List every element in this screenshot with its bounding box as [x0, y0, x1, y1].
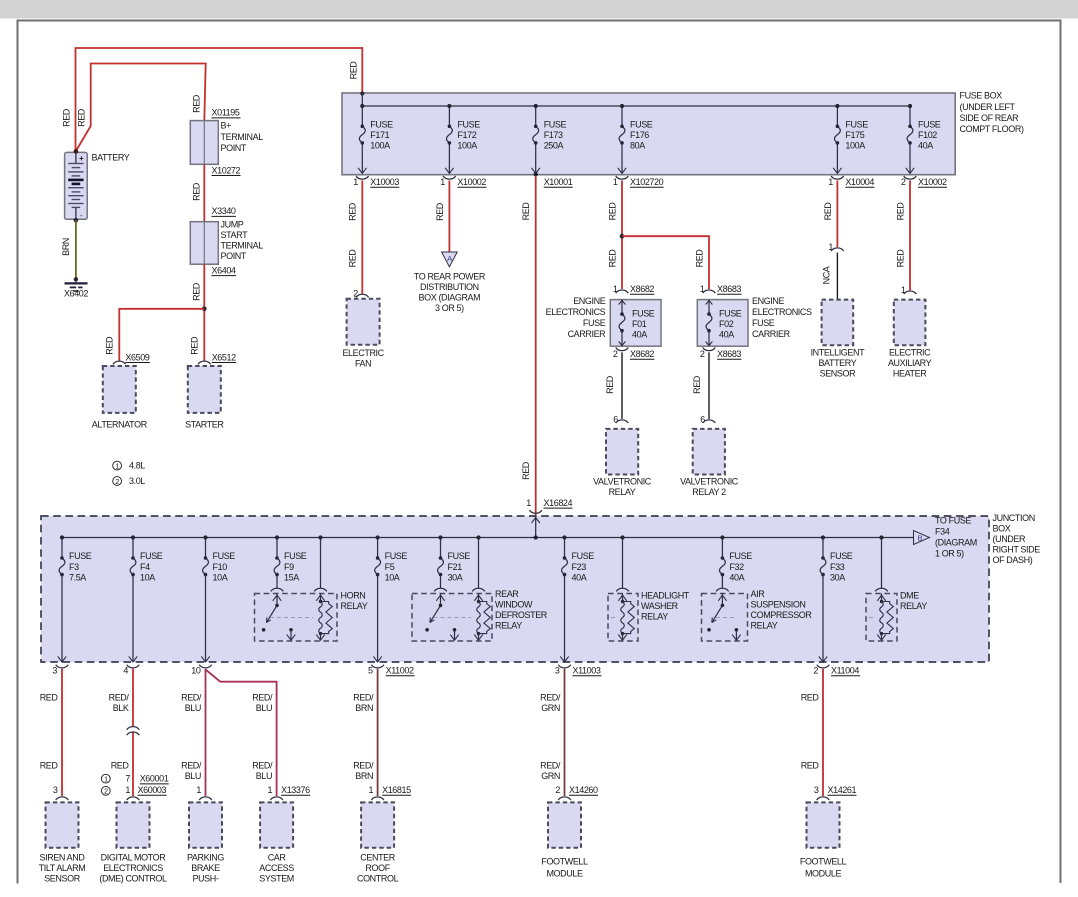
- module connector: [199, 797, 212, 800]
- wire RED/BLU branch to car access system: [206, 670, 277, 797]
- wire bus to relay coil: [476, 535, 480, 539]
- svg-text:FUSE: FUSE: [140, 551, 163, 561]
- air suspension compressor relay box: [702, 594, 748, 642]
- svg-text:RED: RED: [111, 761, 130, 771]
- junction box bottom connector pin 3: [56, 665, 69, 668]
- svg-text:X6509: X6509: [125, 352, 149, 362]
- DME relay coil: [877, 595, 885, 601]
- svg-text:RED: RED: [40, 761, 59, 771]
- valvetronic relay box: [606, 429, 638, 475]
- svg-text:RED: RED: [895, 249, 905, 268]
- module connector: [817, 797, 830, 800]
- svg-text:ELECTRONICS: ELECTRONICS: [546, 307, 606, 317]
- module connector: [127, 797, 140, 800]
- svg-text:2: 2: [901, 177, 906, 187]
- wire RED branch to carrier 2: [622, 236, 709, 289]
- wire RED branch to alternator: [119, 309, 204, 361]
- svg-text:X14261: X14261: [828, 785, 857, 795]
- svg-text:RED/: RED/: [353, 761, 374, 771]
- defroster relay link: [434, 617, 472, 619]
- svg-text:F176: F176: [630, 130, 649, 140]
- svg-text:RED: RED: [692, 375, 702, 394]
- horn relay switch: [273, 595, 281, 601]
- svg-text:RED: RED: [348, 202, 358, 221]
- svg-text:CENTER: CENTER: [360, 853, 396, 863]
- svg-text:1: 1: [526, 498, 531, 508]
- connector X10002 at fuse box bottom: [443, 176, 456, 179]
- svg-text:15A: 15A: [284, 572, 299, 582]
- svg-text:6: 6: [700, 415, 705, 425]
- svg-text:X11003: X11003: [573, 666, 601, 676]
- svg-text:250A: 250A: [544, 140, 564, 150]
- svg-text:2: 2: [115, 477, 119, 486]
- svg-text:X102720: X102720: [630, 177, 664, 187]
- svg-text:5: 5: [368, 666, 373, 676]
- svg-text:X14260: X14260: [569, 785, 598, 795]
- svg-text:AIR: AIR: [751, 589, 766, 599]
- module box: [361, 802, 394, 847]
- svg-text:F21: F21: [448, 562, 463, 572]
- svg-text:ACCESS: ACCESS: [259, 863, 294, 873]
- wire RED F171 to electric fan: [361, 181, 363, 294]
- wire to module: [61, 669, 63, 796]
- ground X6402: [74, 277, 78, 281]
- junction box bus bar: [62, 537, 912, 539]
- connector X10004 at fuse box bottom: [831, 176, 844, 179]
- svg-text:X11004: X11004: [831, 666, 859, 676]
- module connector: [56, 797, 69, 800]
- node - branch to alternator: [202, 307, 207, 312]
- svg-text:BOX: BOX: [993, 524, 1011, 534]
- svg-text:F01: F01: [632, 319, 647, 329]
- svg-text:RED: RED: [40, 693, 59, 703]
- wire BRN battery negative to ground: [75, 220, 77, 279]
- svg-text:X60001: X60001: [140, 774, 169, 784]
- defroster relay coil: [474, 595, 482, 601]
- connector X102720 at fuse box bottom: [616, 176, 629, 179]
- svg-text:FAN: FAN: [355, 358, 371, 368]
- svg-text:RED/: RED/: [252, 693, 273, 703]
- svg-text:ELECTRIC: ELECTRIC: [342, 348, 384, 358]
- wire to valvetronic relay 2 (marked RED): [708, 352, 710, 419]
- svg-text:2: 2: [104, 787, 108, 796]
- svg-text:RED: RED: [349, 61, 359, 80]
- svg-text:+: +: [79, 154, 84, 163]
- valvetronic relay 2 box: [693, 429, 725, 475]
- junction box bottom connector pin 4: [127, 665, 140, 668]
- svg-text:RED/: RED/: [181, 761, 202, 771]
- battery B1: [65, 152, 88, 219]
- wire to module: [564, 669, 566, 796]
- wire RED F176 to engine electronics fuse carriers: [621, 181, 623, 290]
- svg-text:FUSE: FUSE: [572, 551, 595, 561]
- svg-text:10: 10: [191, 666, 201, 676]
- horn relay box: [255, 594, 338, 642]
- svg-text:B: B: [917, 534, 922, 543]
- fuse F33: [821, 535, 825, 539]
- off-page arrow B to fuse F34: [912, 537, 914, 539]
- svg-text:RED: RED: [77, 108, 87, 127]
- intelligent battery sensor box: [822, 300, 854, 346]
- electric auxiliary heater box: [894, 300, 926, 346]
- svg-text:BRAKE: BRAKE: [191, 863, 220, 873]
- wire to module: [822, 669, 824, 796]
- fuse F171: [361, 125, 365, 129]
- wire RED F102 to electric auxiliary heater: [909, 181, 911, 291]
- svg-text:100A: 100A: [845, 140, 865, 150]
- svg-text:1: 1: [267, 785, 272, 795]
- module box: [807, 802, 840, 847]
- svg-text:CONTROL: CONTROL: [357, 873, 399, 883]
- svg-text:X10272: X10272: [212, 165, 241, 175]
- inline connector X60001/X60003: [127, 727, 140, 730]
- wire NCA to intelligent battery sensor: [836, 253, 838, 300]
- svg-text:B+: B+: [221, 121, 232, 131]
- wire fuse output to junction box bottom: [377, 575, 379, 662]
- svg-text:1: 1: [368, 785, 373, 795]
- svg-text:RELAY: RELAY: [641, 612, 668, 622]
- wire to valvetronic relay (marked RED): [621, 352, 623, 419]
- legend engine variant 1 - 4.8L: [113, 461, 122, 470]
- svg-text:(DME) CONTROL: (DME) CONTROL: [99, 873, 167, 883]
- fuse F5: [376, 535, 380, 539]
- air suspension relay switch: [718, 595, 726, 601]
- svg-text:RED: RED: [521, 461, 531, 480]
- svg-text:INTELLIGENT: INTELLIGENT: [811, 348, 866, 358]
- svg-text:RED: RED: [62, 108, 72, 127]
- svg-text:TERMINAL: TERMINAL: [221, 132, 264, 142]
- svg-text:START: START: [221, 230, 249, 240]
- svg-text:RELAY: RELAY: [341, 601, 368, 611]
- svg-text:SYSTEM: SYSTEM: [259, 873, 294, 883]
- svg-text:2: 2: [700, 349, 705, 359]
- svg-text:RED/: RED/: [540, 693, 561, 703]
- bus bar in fuse box: [362, 105, 910, 107]
- svg-text:X8683: X8683: [717, 284, 741, 294]
- wire RED F175 to inline connector: [836, 181, 838, 248]
- wire RED B+ to jump start terminal: [203, 164, 205, 221]
- B+ terminal point box: [190, 121, 218, 165]
- svg-text:HORN: HORN: [341, 591, 366, 601]
- svg-text:ROOF: ROOF: [365, 863, 390, 873]
- svg-text:DME: DME: [900, 591, 919, 601]
- svg-text:FUSE: FUSE: [370, 120, 393, 130]
- svg-text:RED/: RED/: [353, 693, 374, 703]
- svg-text:FUSE: FUSE: [630, 120, 653, 130]
- rear window defroster relay box: [412, 594, 492, 642]
- svg-text:SENSOR: SENSOR: [44, 873, 81, 883]
- svg-text:FUSE: FUSE: [632, 308, 655, 318]
- headlight washer relay coil: [618, 595, 626, 601]
- svg-text:HEATER: HEATER: [893, 369, 927, 379]
- svg-text:4.8L: 4.8L: [129, 461, 145, 471]
- svg-text:(UNDER: (UNDER: [993, 534, 1026, 544]
- svg-text:RED/: RED/: [540, 761, 561, 771]
- svg-text:X8683: X8683: [717, 349, 741, 359]
- svg-text:1: 1: [353, 177, 358, 187]
- svg-text:2: 2: [555, 785, 560, 795]
- svg-text:10A: 10A: [213, 572, 228, 582]
- svg-text:100A: 100A: [370, 140, 390, 150]
- svg-text:RED/: RED/: [252, 761, 273, 771]
- svg-text:X10001: X10001: [544, 177, 573, 187]
- wire bus to relay coil: [318, 535, 322, 539]
- svg-text:AUXILIARY: AUXILIARY: [888, 358, 932, 368]
- svg-text:FUSE BOX: FUSE BOX: [960, 91, 1003, 101]
- svg-text:FUSE: FUSE: [213, 551, 236, 561]
- svg-text:40A: 40A: [719, 330, 734, 340]
- connector X8683 pin 2: [703, 348, 716, 351]
- svg-text:FUSE: FUSE: [544, 120, 567, 130]
- svg-text:POINT: POINT: [221, 143, 247, 153]
- svg-text:F102: F102: [918, 130, 937, 140]
- wire fuse output to junction box bottom: [822, 575, 824, 662]
- svg-text:REAR: REAR: [495, 589, 519, 599]
- alternator box: [103, 366, 136, 413]
- svg-text:NCA: NCA: [821, 266, 831, 284]
- svg-text:RED: RED: [192, 94, 202, 113]
- svg-text:RED: RED: [895, 202, 905, 221]
- fuse F21: [438, 535, 442, 539]
- svg-text:F4: F4: [140, 562, 150, 572]
- svg-text:F23: F23: [572, 562, 587, 572]
- wire RED/BLK to DME control: [132, 669, 134, 727]
- headlight washer relay box: [608, 594, 638, 642]
- svg-text:RELAY: RELAY: [495, 621, 522, 631]
- wire fuse output to relay: [440, 575, 442, 589]
- electric fan box: [347, 299, 380, 345]
- svg-text:X6402: X6402: [64, 289, 88, 299]
- svg-text:VALVETRONIC: VALVETRONIC: [680, 476, 739, 486]
- junction box (under right side of dash): [41, 516, 989, 662]
- svg-text:RED: RED: [607, 202, 617, 221]
- connector X10003 at fuse box bottom: [356, 176, 369, 179]
- engine electronics fuse carrier 1 box: [610, 300, 661, 347]
- svg-text:JUNCTION: JUNCTION: [993, 513, 1035, 523]
- wire fuse output to junction box bottom: [205, 575, 207, 662]
- svg-text:ENGINE: ENGINE: [573, 296, 606, 306]
- svg-text:FUSE: FUSE: [69, 551, 92, 561]
- svg-text:RED/: RED/: [181, 693, 202, 703]
- node fuse box feed: [360, 91, 364, 95]
- svg-text:RED: RED: [521, 202, 531, 221]
- svg-text:X10002: X10002: [457, 177, 486, 187]
- module box: [46, 802, 79, 847]
- wire fuse output to junction box bottom: [61, 575, 63, 662]
- svg-text:10A: 10A: [385, 572, 400, 582]
- DME relay box: [866, 594, 897, 642]
- wire fuse output to junction box bottom: [132, 575, 134, 662]
- svg-text:ENGINE: ENGINE: [752, 296, 785, 306]
- svg-text:2: 2: [813, 666, 818, 676]
- svg-text:(UNDER LEFT: (UNDER LEFT: [960, 102, 1016, 112]
- svg-text:SUSPENSION: SUSPENSION: [751, 600, 806, 610]
- svg-text:ALTERNATOR: ALTERNATOR: [92, 419, 148, 429]
- svg-text:BLU: BLU: [256, 703, 272, 713]
- svg-text:X10003: X10003: [370, 177, 399, 187]
- svg-text:ELECTRIC: ELECTRIC: [889, 348, 931, 358]
- junction box bottom connector pin 10: [199, 665, 212, 668]
- svg-text:SIDE OF REAR: SIDE OF REAR: [960, 113, 1020, 123]
- svg-text:RED/: RED/: [109, 693, 130, 703]
- svg-text:BRN: BRN: [355, 771, 373, 781]
- svg-text:F171: F171: [370, 130, 389, 140]
- wire to module: [377, 669, 379, 796]
- svg-text:RELAY: RELAY: [609, 487, 636, 497]
- wire to module: [205, 669, 207, 796]
- svg-text:3: 3: [814, 785, 819, 795]
- svg-text:RED: RED: [189, 336, 199, 355]
- battery bottom node: [74, 218, 79, 223]
- fuse F3: [60, 535, 64, 539]
- svg-text:X8682: X8682: [630, 349, 654, 359]
- svg-text:(DIAGRAM: (DIAGRAM: [935, 538, 977, 548]
- svg-text:FUSE: FUSE: [385, 551, 408, 561]
- svg-text:TO REAR POWER: TO REAR POWER: [414, 272, 486, 282]
- starter box: [188, 366, 221, 413]
- connector X10002 at fuse box bottom: [904, 176, 917, 179]
- svg-text:COMPRESSOR: COMPRESSOR: [751, 610, 813, 620]
- svg-text:10A: 10A: [140, 572, 155, 582]
- svg-text:1: 1: [828, 177, 833, 187]
- fuse F4: [131, 535, 135, 539]
- svg-text:X11002: X11002: [386, 666, 414, 676]
- wire fuse output to relay: [721, 575, 723, 589]
- svg-text:FUSE: FUSE: [448, 551, 471, 561]
- svg-text:3: 3: [53, 785, 58, 795]
- svg-text:X10004: X10004: [845, 177, 874, 187]
- node F176 branch: [620, 234, 625, 239]
- svg-text:POINT: POINT: [221, 251, 247, 261]
- svg-text:DEFROSTER: DEFROSTER: [495, 610, 548, 620]
- svg-text:F33: F33: [830, 562, 845, 572]
- svg-text:3.0L: 3.0L: [129, 476, 145, 486]
- svg-text:F175: F175: [845, 130, 864, 140]
- svg-text:OF DASH): OF DASH): [993, 555, 1033, 565]
- svg-text:RED: RED: [607, 249, 617, 268]
- off-page arrow A to rear power distribution box: [442, 252, 458, 267]
- DME relay link stub: [869, 617, 875, 619]
- svg-text:3: 3: [555, 666, 560, 676]
- module connector: [371, 797, 384, 800]
- fuse F176: [621, 106, 623, 126]
- wire RED F172 to triangle A: [448, 181, 450, 253]
- svg-text:RED: RED: [605, 375, 615, 394]
- wire - battery positive to fuse box (outer red): [76, 48, 363, 151]
- wire RED F173 to junction box X16824: [535, 176, 537, 516]
- svg-text:F34: F34: [935, 527, 950, 537]
- svg-text:40A: 40A: [572, 572, 587, 582]
- svg-text:1: 1: [104, 775, 108, 784]
- svg-text:TO FUSE: TO FUSE: [935, 516, 971, 526]
- svg-text:BLU: BLU: [256, 771, 272, 781]
- svg-text:JUMP: JUMP: [221, 220, 244, 230]
- junction box bottom connector pin 2 X11004: [817, 665, 830, 668]
- svg-text:RELAY 2: RELAY 2: [692, 487, 726, 497]
- svg-text:FUSE: FUSE: [830, 551, 853, 561]
- air suspension relay link stub: [716, 617, 736, 619]
- svg-text:GRN: GRN: [541, 703, 560, 713]
- junction box bottom connector pin 3 X11003: [558, 665, 571, 668]
- svg-text:RED: RED: [801, 693, 820, 703]
- svg-text:40A: 40A: [729, 572, 744, 582]
- svg-text:4: 4: [123, 666, 128, 676]
- svg-text:100A: 100A: [457, 140, 477, 150]
- svg-text:SIREN AND: SIREN AND: [40, 853, 86, 863]
- svg-text:FUSE: FUSE: [457, 120, 480, 130]
- svg-text:F10: F10: [213, 562, 228, 572]
- svg-text:X3340: X3340: [212, 206, 236, 216]
- svg-text:BRN: BRN: [61, 238, 71, 256]
- svg-text:TILT ALARM: TILT ALARM: [39, 863, 86, 873]
- svg-text:1: 1: [440, 177, 445, 187]
- engine electronics fuse carrier 2 box: [697, 300, 748, 347]
- svg-text:CARRIER: CARRIER: [752, 329, 791, 339]
- battery top node: [74, 149, 79, 154]
- wire bus to relay coil: [879, 535, 883, 539]
- svg-text:40A: 40A: [632, 330, 647, 340]
- svg-text:FUSE: FUSE: [729, 551, 752, 561]
- svg-text:X16824: X16824: [544, 498, 573, 508]
- fuse F32: [720, 535, 724, 539]
- svg-text:BLU: BLU: [185, 771, 201, 781]
- svg-text:80A: 80A: [630, 140, 645, 150]
- svg-text:FUSE: FUSE: [583, 318, 606, 328]
- svg-text:3 OR 5): 3 OR 5): [435, 303, 464, 313]
- svg-text:RED: RED: [104, 336, 114, 355]
- svg-text:BRN: BRN: [355, 703, 373, 713]
- svg-text:FUSE: FUSE: [752, 318, 775, 328]
- jump start terminal point box: [190, 222, 218, 265]
- legend engine variant 2 - 3.0L: [113, 477, 122, 486]
- svg-text:BOX (DIAGRAM: BOX (DIAGRAM: [419, 293, 481, 303]
- svg-text:FUSE: FUSE: [284, 551, 307, 561]
- module box: [548, 802, 581, 847]
- svg-text:F172: F172: [457, 130, 476, 140]
- fuse F10: [203, 535, 207, 539]
- svg-text:BLU: BLU: [185, 703, 201, 713]
- svg-text:GRN: GRN: [541, 771, 560, 781]
- svg-text:F5: F5: [385, 562, 395, 572]
- svg-text:F02: F02: [719, 319, 734, 329]
- svg-text:RED: RED: [192, 282, 202, 301]
- wire fuse output to relay: [276, 575, 278, 589]
- svg-text:BATTERY: BATTERY: [92, 152, 130, 162]
- module box: [117, 802, 150, 847]
- legend variant 2 pin 1 X60003: [101, 786, 110, 795]
- svg-text:RED: RED: [823, 202, 833, 221]
- svg-text:RED: RED: [192, 182, 202, 201]
- svg-text:FUSE: FUSE: [918, 120, 941, 130]
- svg-text:RELAY: RELAY: [751, 621, 778, 631]
- wire - battery positive to B+ terminal point (inner red): [77, 64, 206, 151]
- svg-text:SENSOR: SENSOR: [820, 369, 857, 379]
- svg-text:FOOTWELL: FOOTWELL: [800, 856, 847, 866]
- svg-text:COMPT FLOOR): COMPT FLOOR): [960, 124, 1024, 134]
- svg-text:F32: F32: [729, 562, 744, 572]
- fuse box (rear power distribution): [342, 93, 955, 175]
- svg-text:RED: RED: [694, 249, 704, 268]
- svg-text:RED: RED: [348, 249, 358, 268]
- fuse F172: [448, 106, 450, 126]
- connector X8682 pin 2: [616, 348, 629, 351]
- svg-text:X6512: X6512: [212, 352, 236, 362]
- svg-text:TERMINAL: TERMINAL: [221, 241, 264, 251]
- svg-text:ELECTRONICS: ELECTRONICS: [752, 307, 812, 317]
- svg-text:F9: F9: [284, 562, 294, 572]
- svg-text:X13376: X13376: [281, 785, 310, 795]
- module box: [189, 802, 222, 847]
